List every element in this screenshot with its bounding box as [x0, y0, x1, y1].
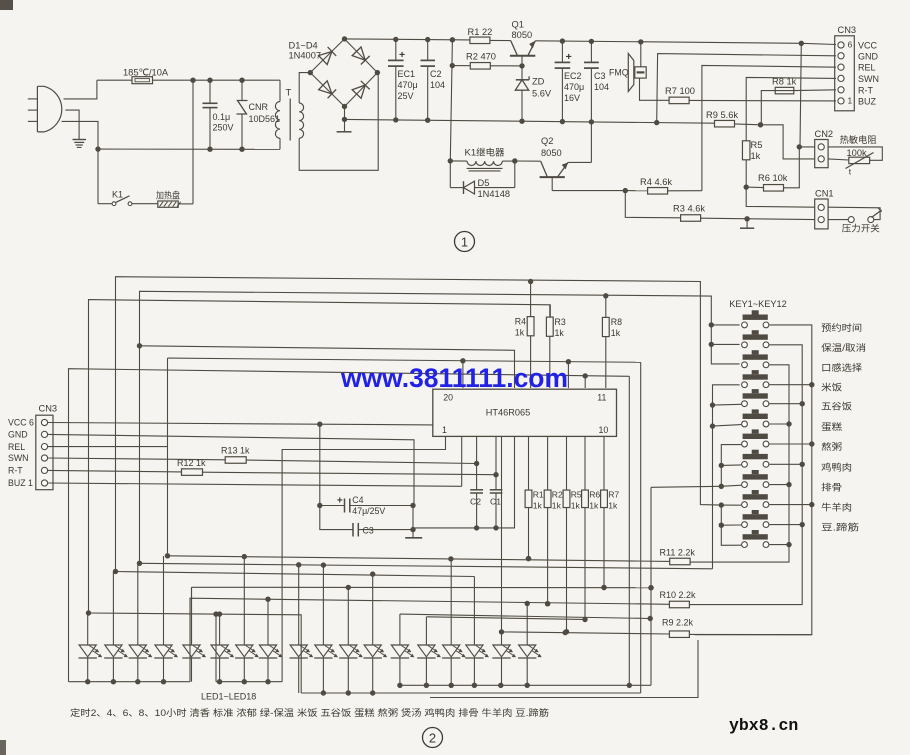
wire VCC raw rail — [345, 37, 471, 43]
diode D5 1N4148 — [450, 161, 515, 199]
relay K1 coil — [448, 147, 518, 171]
svg-text:R9 2.2k: R9 2.2k — [662, 618, 694, 628]
capacitor C3 (MCU) — [320, 506, 416, 537]
svg-text:R11 2.2k: R11 2.2k — [660, 548, 696, 558]
svg-text:0.1μ: 0.1μ — [213, 112, 231, 122]
wire key group rail G3 — [651, 445, 741, 489]
resistor R2 470 — [452, 52, 524, 70]
svg-text:R6 10k: R6 10k — [758, 173, 788, 183]
svg-text:2: 2 — [429, 731, 436, 746]
transistor Q2 8050 — [515, 136, 628, 193]
ground (bridge minus) — [337, 107, 352, 132]
wire bus B6 — [86, 610, 301, 693]
wire LED14 feed — [426, 617, 583, 620]
svg-text:R2 470: R2 470 — [466, 52, 496, 62]
svg-text:R7: R7 — [608, 490, 619, 500]
wire C nest — [89, 300, 551, 613]
resistor R3 1k (MCU) — [546, 305, 565, 388]
resistor R13 1k — [48, 446, 480, 467]
bridge rectifier D1~D4 1N4007 — [308, 36, 381, 109]
wire B nest — [140, 291, 740, 563]
svg-text:Q1: Q1 — [512, 20, 524, 30]
svg-text:GND: GND — [8, 430, 28, 440]
svg-text:C3: C3 — [594, 71, 606, 81]
capacitor C1 (osc) — [490, 437, 503, 528]
svg-text:11: 11 — [597, 393, 606, 403]
svg-text:牛羊肉: 牛羊肉 — [821, 502, 852, 513]
heater plate 加热盘 — [132, 80, 193, 207]
wire cathode bus 1 — [69, 679, 191, 684]
scan edge marks — [0, 0, 13, 755]
LED LED3 — [129, 563, 153, 681]
svg-text:热敏电阻: 热敏电阻 — [840, 134, 877, 145]
label key 2 — [821, 342, 866, 353]
label key 9 — [821, 482, 842, 493]
key KEY1 — [742, 310, 769, 328]
transformer T — [275, 73, 378, 171]
svg-text:R-T: R-T — [858, 85, 873, 95]
fuse F1 185℃/10A — [97, 68, 279, 84]
wire key group rail G4 — [719, 502, 742, 545]
svg-text:1k: 1k — [533, 501, 543, 511]
svg-text:C3: C3 — [363, 526, 374, 536]
svg-text:1k: 1k — [552, 501, 562, 511]
LED LED7 — [235, 557, 259, 682]
label key 11 — [821, 522, 859, 533]
svg-text:25V: 25V — [398, 91, 414, 101]
svg-text:鸡鸭肉: 鸡鸭肉 — [821, 461, 852, 472]
resistor R5 1k (MCU bank) — [563, 437, 582, 635]
key KEY7 — [742, 429, 769, 447]
wire osc common — [413, 437, 515, 531]
svg-text:R2: R2 — [552, 490, 563, 500]
svg-text:VCC: VCC — [858, 41, 878, 51]
svg-text:1k: 1k — [589, 501, 599, 511]
svg-text:预约时间: 预约时间 — [821, 322, 862, 333]
wire key column 3 — [690, 365, 791, 562]
wire bus B2 — [137, 561, 713, 569]
AC plug P1 — [28, 86, 62, 132]
resistor R2 1k (MCU bank) — [544, 437, 563, 607]
svg-text:10: 10 — [599, 425, 609, 435]
svg-text:1: 1 — [442, 425, 447, 435]
LED LED8 — [259, 599, 283, 682]
svg-text:R10 2.2k: R10 2.2k — [660, 590, 697, 600]
key KEY3 — [742, 350, 769, 367]
wire bus B5 — [190, 597, 670, 682]
LED LED12 — [364, 574, 388, 693]
svg-text:保温/取消: 保温/取消 — [821, 342, 866, 353]
wire key column 1 — [695, 325, 815, 635]
svg-text:t: t — [849, 167, 852, 177]
resistor R6 10k — [746, 144, 802, 191]
svg-text:R1 22: R1 22 — [468, 27, 493, 37]
LED LED11 — [339, 587, 363, 693]
switch K1 — [98, 190, 132, 206]
wire A nest — [116, 277, 722, 572]
capacitor EC2 470u/16V — [555, 41, 585, 122]
resistor R12 1k — [48, 458, 499, 477]
svg-text:T: T — [286, 88, 292, 99]
LED LED10 — [314, 565, 338, 693]
wire cathode bus 2 — [216, 614, 282, 684]
wire REL2 top run — [168, 358, 641, 693]
svg-text:1k: 1k — [611, 328, 621, 338]
wire — [62, 121, 101, 203]
key KEY12 — [742, 530, 769, 547]
diode D2 — [352, 47, 370, 65]
ground (MCU caps) — [405, 506, 422, 538]
LED LED15 — [442, 559, 466, 685]
connector CN2 — [815, 129, 834, 168]
connector CN3 — [835, 25, 879, 111]
resistor R4 1k (MCU) — [515, 279, 534, 388]
wire thermistor node to CN2 — [761, 125, 815, 159]
svg-text:口感选择: 口感选择 — [821, 362, 863, 373]
svg-text:SWN: SWN — [8, 453, 29, 463]
key KEY2 — [742, 330, 769, 347]
wire bus B1 — [165, 553, 670, 562]
svg-text:1k: 1k — [515, 328, 525, 338]
wire raw DC to relay — [450, 40, 455, 161]
label section ② — [423, 728, 443, 748]
wire bus B4 — [192, 585, 654, 643]
svg-text:CN2: CN2 — [815, 129, 834, 139]
svg-text:R13 1k: R13 1k — [221, 446, 250, 456]
svg-text:LED1~LED18: LED1~LED18 — [201, 692, 256, 702]
key KEY6 — [742, 409, 769, 427]
svg-text:1N4148: 1N4148 — [478, 189, 511, 199]
ground — [740, 219, 754, 228]
svg-text:+: + — [566, 51, 572, 63]
key KEY4 — [742, 370, 769, 388]
svg-text:R8: R8 — [611, 317, 622, 327]
svg-text:R-T: R-T — [8, 466, 23, 476]
capacitor C3 104 — [584, 41, 609, 162]
resistor R1 1k (MCU bank) — [525, 437, 544, 562]
svg-text:CNR: CNR — [249, 102, 269, 112]
svg-text:ZD: ZD — [532, 77, 545, 87]
svg-text:EC2: EC2 — [564, 71, 582, 81]
svg-text:R3: R3 — [555, 317, 566, 327]
LED LED5 — [182, 587, 206, 681]
zener diode ZD 5.6V — [515, 66, 552, 121]
svg-text:R5: R5 — [571, 490, 582, 500]
svg-text:CN3: CN3 — [838, 25, 857, 35]
svg-text:豆.蹄筋: 豆.蹄筋 — [821, 522, 859, 533]
IC U1 HT46R065 — [433, 389, 617, 436]
svg-text:CN1: CN1 — [815, 189, 834, 199]
svg-text:R8 1k: R8 1k — [772, 77, 797, 87]
thermistor RT 100k — [828, 134, 882, 177]
svg-text:8050: 8050 — [512, 30, 533, 40]
label key 8 — [821, 461, 852, 472]
resistor R10 2.2k — [660, 590, 697, 608]
wire key column 2 — [689, 345, 805, 605]
svg-text:5.6V: 5.6V — [532, 89, 552, 99]
LED LED17 — [492, 437, 516, 686]
wire L370 nest — [69, 369, 630, 686]
svg-text:R3 4.6k: R3 4.6k — [673, 204, 705, 214]
svg-text:250V: 250V — [213, 123, 234, 133]
svg-text:加热盘: 加热盘 — [156, 190, 180, 201]
svg-text:20: 20 — [443, 393, 453, 403]
label section ① — [455, 232, 475, 252]
LED LED9 — [290, 565, 314, 693]
label key 4 — [821, 382, 842, 393]
svg-text:R7 100: R7 100 — [665, 86, 695, 96]
capacitor CX1 0.1u 250V — [203, 80, 234, 149]
svg-text:www.3811111.com: www.3811111.com — [340, 363, 568, 393]
connector CN3 (MCU side) — [8, 404, 57, 490]
svg-text:D1~D4: D1~D4 — [289, 41, 318, 51]
LED LED16 — [465, 577, 489, 686]
label ybx8.cn — [729, 716, 798, 735]
wire IC pin1 scan line — [282, 437, 445, 682]
key KEY11 — [742, 510, 769, 527]
label key 6 — [821, 421, 842, 432]
wire REL to R4 — [702, 65, 836, 190]
wire cathode bus 3 — [397, 487, 654, 688]
LED LED6 — [210, 614, 234, 682]
label key 10 — [821, 502, 852, 513]
svg-text:R5: R5 — [751, 140, 763, 150]
svg-text:1k: 1k — [751, 151, 761, 161]
svg-text:CN3: CN3 — [39, 404, 58, 414]
svg-text:SWN: SWN — [858, 74, 879, 84]
LED LED13 — [391, 614, 415, 685]
wire to CN1 pin1 — [746, 187, 815, 207]
svg-text:Q2: Q2 — [541, 136, 553, 146]
svg-text:104: 104 — [594, 82, 609, 92]
diode D1 — [319, 47, 337, 65]
resistor R3 4.6k — [625, 191, 814, 222]
resistor R11 2.2k — [660, 548, 696, 565]
svg-text:排骨: 排骨 — [821, 482, 842, 493]
label timing caption — [70, 707, 549, 718]
key KEY9 — [742, 470, 769, 488]
svg-text:R12 1k: R12 1k — [177, 458, 206, 468]
svg-text:C1: C1 — [490, 497, 501, 507]
svg-text:C2: C2 — [430, 69, 442, 79]
resistor R9 5.6k — [706, 110, 763, 128]
svg-text:R9 5.6k: R9 5.6k — [706, 110, 738, 120]
wire bottom bus 5 — [430, 640, 698, 698]
svg-text:五谷饭: 五谷饭 — [821, 401, 852, 412]
wire VCC to CN2 — [800, 43, 815, 147]
watermark www.3811111.com — [340, 363, 568, 393]
svg-text:47μ/25V: 47μ/25V — [352, 506, 385, 516]
svg-text:100k: 100k — [847, 148, 868, 158]
capacitor C2 (osc) — [470, 437, 483, 528]
varistor CNR 10D561 — [237, 80, 281, 149]
resistor R1 22 — [468, 27, 511, 44]
svg-text:16V: 16V — [564, 93, 580, 103]
svg-text:104: 104 — [430, 80, 445, 90]
wire VCC2 — [48, 422, 433, 427]
label key 3 — [821, 362, 863, 373]
key KEY5 — [742, 389, 769, 407]
label key 7 — [821, 441, 842, 452]
svg-text:470μ: 470μ — [398, 80, 418, 90]
resistor R8 1k — [775, 89, 836, 92]
svg-text:185℃/10A: 185℃/10A — [123, 68, 169, 78]
svg-text:1k: 1k — [555, 328, 565, 338]
svg-text:K1: K1 — [112, 190, 123, 200]
svg-text:R1: R1 — [533, 490, 544, 500]
resistor R9 2.2k — [499, 618, 812, 638]
svg-text:+: + — [399, 49, 405, 61]
svg-text:1N4007: 1N4007 — [289, 51, 322, 61]
LED LED14 — [417, 617, 441, 686]
diode D4 — [352, 81, 370, 99]
svg-text:米饭: 米饭 — [821, 382, 842, 393]
svg-text:R4 4.6k: R4 4.6k — [640, 177, 672, 187]
resistor R7 1k (MCU bank) — [601, 437, 620, 591]
svg-text:8050: 8050 — [541, 148, 562, 158]
buzzer FMQ — [609, 42, 669, 100]
svg-text:R6: R6 — [589, 490, 600, 500]
node top-rail junctions — [190, 78, 244, 83]
svg-text:定时2、4、6、8、10小时 清香 标准 浓郁 绿-保温 米: 定时2、4、6、8、10小时 清香 标准 浓郁 绿-保温 米饭 五谷饭 蛋糕 熬… — [70, 707, 549, 718]
svg-text:470μ: 470μ — [564, 82, 584, 92]
connector CN1 — [815, 189, 834, 229]
svg-text:BUZ 1: BUZ 1 — [8, 478, 33, 488]
wire key group rail G2 — [710, 385, 742, 569]
svg-text:K1继电器: K1继电器 — [465, 147, 506, 158]
LED LED1 — [79, 613, 103, 682]
svg-text:1: 1 — [848, 95, 853, 105]
svg-text:C2: C2 — [470, 497, 481, 507]
wire BUZ2 — [48, 437, 462, 487]
svg-text:熬粥: 熬粥 — [821, 441, 842, 452]
svg-text:REL: REL — [858, 63, 876, 73]
wire — [64, 80, 97, 99]
svg-text:REL: REL — [8, 442, 25, 452]
ground — [65, 110, 86, 147]
svg-text:FMQ: FMQ — [609, 68, 629, 78]
svg-text:1: 1 — [461, 235, 468, 250]
svg-text:EC1: EC1 — [398, 69, 416, 79]
wire GND2 — [48, 434, 414, 505]
LED LED4 — [154, 556, 178, 682]
svg-text:蛋糕: 蛋糕 — [821, 421, 842, 432]
capacitor C2 104 — [421, 40, 446, 121]
label key 1 — [821, 322, 862, 333]
resistor R6 1k (MCU bank) — [582, 437, 601, 623]
resistor R7 100 — [665, 86, 836, 104]
key KEY8 — [742, 450, 769, 467]
LED LED2 — [104, 572, 128, 682]
svg-text:6: 6 — [848, 40, 853, 50]
label D1~D4 1N4007 — [289, 41, 322, 61]
wire cathode bus 4 — [301, 690, 641, 695]
svg-text:D5: D5 — [478, 178, 490, 188]
wire LED13 feed — [400, 614, 653, 621]
svg-text:GND: GND — [858, 51, 879, 61]
resistor R5 1k — [742, 77, 836, 189]
wire GND to CN3 — [657, 54, 836, 123]
wire VCC 5V rail — [535, 38, 836, 46]
pressure switch 压力开关 — [828, 207, 882, 233]
svg-text:R4: R4 — [515, 317, 526, 327]
capacitor C4 47u/25V — [317, 424, 416, 516]
label KEY1~KEY12 — [729, 299, 786, 309]
svg-text:1k: 1k — [608, 501, 618, 511]
svg-text:VCC 6: VCC 6 — [8, 418, 34, 428]
svg-text:KEY1~KEY12: KEY1~KEY12 — [729, 299, 786, 309]
svg-text:BUZ: BUZ — [858, 96, 877, 106]
wire ground rail — [345, 117, 715, 125]
wire bus B3 — [113, 569, 475, 577]
label key 5 — [821, 401, 852, 412]
LED LED18 — [518, 604, 542, 686]
svg-text:C4: C4 — [352, 495, 363, 505]
label LED1~LED18 — [201, 692, 256, 702]
wire REL2 riser — [48, 358, 168, 556]
key KEY10 — [742, 490, 769, 508]
svg-text:ybx8.cn: ybx8.cn — [729, 716, 798, 735]
wire — [98, 147, 279, 152]
svg-text:压力开关: 压力开关 — [842, 223, 880, 234]
diode D3 — [319, 81, 337, 99]
resistor R4 4.6k — [625, 177, 702, 194]
svg-text:+: + — [337, 496, 343, 507]
resistor R8 1k (MCU) — [602, 293, 622, 388]
wire B branch IC top — [137, 343, 515, 388]
svg-text:HT46R065: HT46R065 — [486, 408, 530, 418]
capacitor EC1 470u/25V — [388, 39, 418, 120]
svg-text:1k: 1k — [571, 501, 581, 511]
transistor Q1 8050 — [510, 20, 535, 66]
